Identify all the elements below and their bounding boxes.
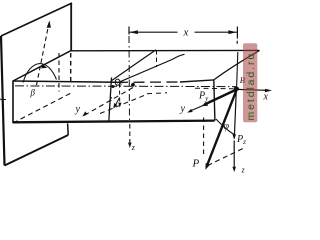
beam axis dash-dot	[15, 85, 236, 88]
svg-text:β: β	[30, 88, 36, 98]
section cut trace 2 on top face	[117, 54, 185, 83]
beam top-left receding edge	[13, 51, 71, 81]
wall edge tick	[0, 98, 6, 100]
section axis vertical dash-dot	[128, 36, 131, 122]
section z axis dashed	[129, 124, 131, 144]
svg-text:x: x	[263, 92, 269, 103]
wall left edge	[1, 36, 5, 166]
section y arrowhead	[82, 111, 87, 116]
z axis / P_z vertical	[234, 90, 236, 139]
svg-text:y: y	[119, 79, 124, 88]
right witness lower continuation	[237, 52, 238, 88]
x axis from B	[237, 89, 270, 90]
dim arrow left	[130, 30, 138, 34]
section vertical 2 dashed	[119, 84, 121, 105]
beam front right edge	[214, 80, 215, 121]
small arrow on section 2	[118, 103, 121, 108]
y axis right thin	[190, 106, 204, 112]
svg-text:φ: φ	[224, 121, 230, 132]
hidden back bottom edge (middle)	[147, 92, 167, 95]
beam front top edge (dashed right part)	[117, 81, 180, 83]
beam front left edge	[12, 81, 14, 124]
section y axis dashed	[84, 88, 133, 116]
z arrowhead	[232, 167, 236, 172]
P arrowhead	[205, 163, 210, 170]
dashed projection vertical	[203, 118, 205, 158]
svg-text:y: y	[180, 104, 186, 115]
svg-text:P: P	[192, 158, 200, 170]
y axis right arrowhead	[187, 109, 193, 113]
section cut trace 1 on top face	[111, 50, 156, 81]
right witness line	[236, 27, 238, 44]
force P vector (thick)	[207, 90, 237, 166]
small junction blob	[112, 85, 115, 88]
wall right edge upper	[70, 3, 72, 51]
wall right edge lower	[67, 124, 70, 136]
hidden back bottom left edge	[13, 93, 72, 124]
wall right edge hidden behind beam top face	[70, 53, 72, 81]
svg-text:y: y	[75, 104, 81, 115]
svg-text:metdlad.ru: metdlad.ru	[245, 52, 257, 121]
small circle glyph dx	[115, 79, 120, 85]
x axis arrowhead	[265, 89, 272, 93]
force plane trace arrow (dashed, in wall)	[37, 23, 50, 85]
beam front top edge (solid left part)	[13, 81, 117, 82]
section front vertical 1	[109, 78, 112, 122]
x axis dashed left of B	[195, 87, 233, 90]
witness dashes below cut junction	[156, 50, 158, 67]
section z arrowhead	[128, 143, 132, 148]
beam back top edge	[71, 49, 260, 51]
dashed projection diagonal	[208, 148, 245, 166]
wall top edge	[1, 3, 72, 36]
second dashed diagonal	[100, 96, 144, 114]
watermark band	[243, 43, 257, 122]
centroid dot	[131, 83, 135, 87]
phi angle arc	[216, 119, 234, 134]
P_y arrowhead	[201, 102, 208, 107]
P_y component vector (thick)	[205, 90, 237, 105]
beam front top edge (solid right part)	[180, 80, 214, 82]
svg-text:x: x	[183, 27, 189, 39]
section witness upper	[128, 27, 130, 35]
small arrowhead near section vertical	[113, 103, 117, 109]
z axis lower	[233, 141, 235, 169]
beam front bottom edge	[13, 121, 215, 123]
dimension line x	[129, 31, 237, 33]
wall bottom edge	[5, 135, 69, 166]
beam end top receding edge	[214, 51, 260, 80]
dashed vertical near wall	[58, 53, 60, 92]
angle arc in wall	[23, 64, 57, 83]
node B junction blob	[234, 87, 240, 91]
arc arrowhead	[41, 64, 47, 68]
P_z arrowhead	[232, 134, 236, 139]
dim arrow right	[228, 30, 236, 34]
